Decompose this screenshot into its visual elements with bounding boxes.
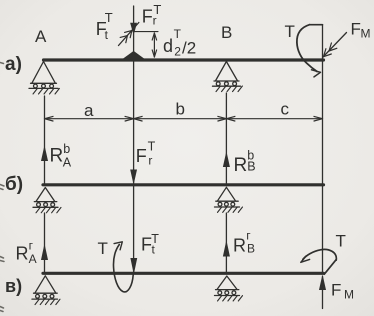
scan artifact marks on left edge — [0, 63, 4, 312]
svg-text:а): а) — [5, 54, 22, 75]
moment T arc (fig v right) — [301, 249, 337, 274]
force FM (fig v) — [320, 276, 326, 309]
extension line B — [225, 93, 227, 184]
beam v — [43, 272, 324, 275]
support A (fig b) — [33, 188, 61, 213]
support A (fig v) — [32, 276, 60, 305]
svg-text:T: T — [153, 2, 161, 17]
extension line load point — [133, 34, 135, 273]
moment T arc (fig a) — [297, 25, 323, 77]
svg-text:R: R — [16, 244, 29, 264]
svg-text:T: T — [98, 239, 108, 258]
svg-text:M: M — [361, 27, 371, 41]
force FM (fig a) — [323, 33, 347, 58]
svg-text:T: T — [285, 22, 295, 41]
svg-text:R: R — [50, 146, 64, 167]
support B (fig v) — [215, 276, 243, 301]
moment T curl (fig v center) — [113, 242, 133, 292]
force Ft (fig a) diagonal — [119, 23, 139, 46]
svg-text:M: M — [344, 288, 354, 302]
svg-text:2: 2 — [174, 45, 181, 59]
beam b — [43, 183, 324, 186]
force Fr arrow (fig b) — [131, 170, 137, 183]
svg-text:A: A — [29, 252, 37, 266]
svg-text:d: d — [163, 36, 173, 56]
support A (fig a) — [29, 62, 59, 95]
dim arrow right — [314, 116, 323, 121]
svg-text:/2: /2 — [182, 39, 196, 58]
svg-text:B: B — [221, 23, 232, 42]
dim arrows at load line — [125, 116, 134, 121]
extension line A — [44, 96, 46, 184]
dim arrow left at A — [45, 116, 54, 121]
svg-text:r: r — [148, 154, 152, 168]
dimension d2/2 double arrow — [152, 33, 156, 57]
svg-text:F: F — [351, 20, 361, 39]
support B (fig a) — [213, 62, 243, 92]
reaction RA_b arrow — [42, 148, 48, 161]
svg-text:b: b — [63, 142, 70, 156]
svg-text:R: R — [234, 155, 248, 176]
svg-text:F: F — [136, 146, 147, 166]
svg-text:F: F — [142, 7, 153, 27]
svg-text:A: A — [63, 156, 72, 170]
svg-text:T: T — [336, 232, 346, 251]
svg-text:F: F — [331, 281, 341, 300]
right end vertical line — [322, 25, 324, 273]
force Fr (fig a) — [131, 6, 137, 34]
reaction RB_b arrow — [224, 154, 230, 167]
svg-text:A: A — [35, 27, 47, 46]
extension line B lower — [225, 213, 227, 272]
tick line at load level — [134, 31, 158, 33]
reaction R'A arrow (fig v) — [42, 213, 48, 272]
dimension line a-b-c — [45, 118, 323, 120]
svg-text:в): в) — [5, 276, 22, 296]
support B (fig b) — [215, 187, 243, 212]
svg-text:г: г — [29, 239, 34, 253]
svg-text:T: T — [148, 140, 156, 154]
force Ft arrow (fig v) — [131, 259, 137, 273]
svg-text:R: R — [233, 236, 246, 256]
dim arrows at B line — [218, 116, 227, 121]
svg-text:B: B — [247, 160, 255, 174]
svg-text:г: г — [246, 229, 251, 243]
reaction RB_g arrow (fig v) — [224, 243, 230, 257]
svg-text:a: a — [84, 101, 94, 120]
svg-text:б): б) — [5, 174, 23, 195]
svg-text:c: c — [281, 100, 290, 119]
svg-text:T: T — [105, 10, 113, 25]
svg-text:T: T — [174, 27, 182, 41]
svg-text:B: B — [247, 242, 255, 256]
beam a — [44, 58, 324, 61]
load point marker (gear hub) — [124, 52, 143, 59]
svg-text:b: b — [176, 100, 185, 119]
